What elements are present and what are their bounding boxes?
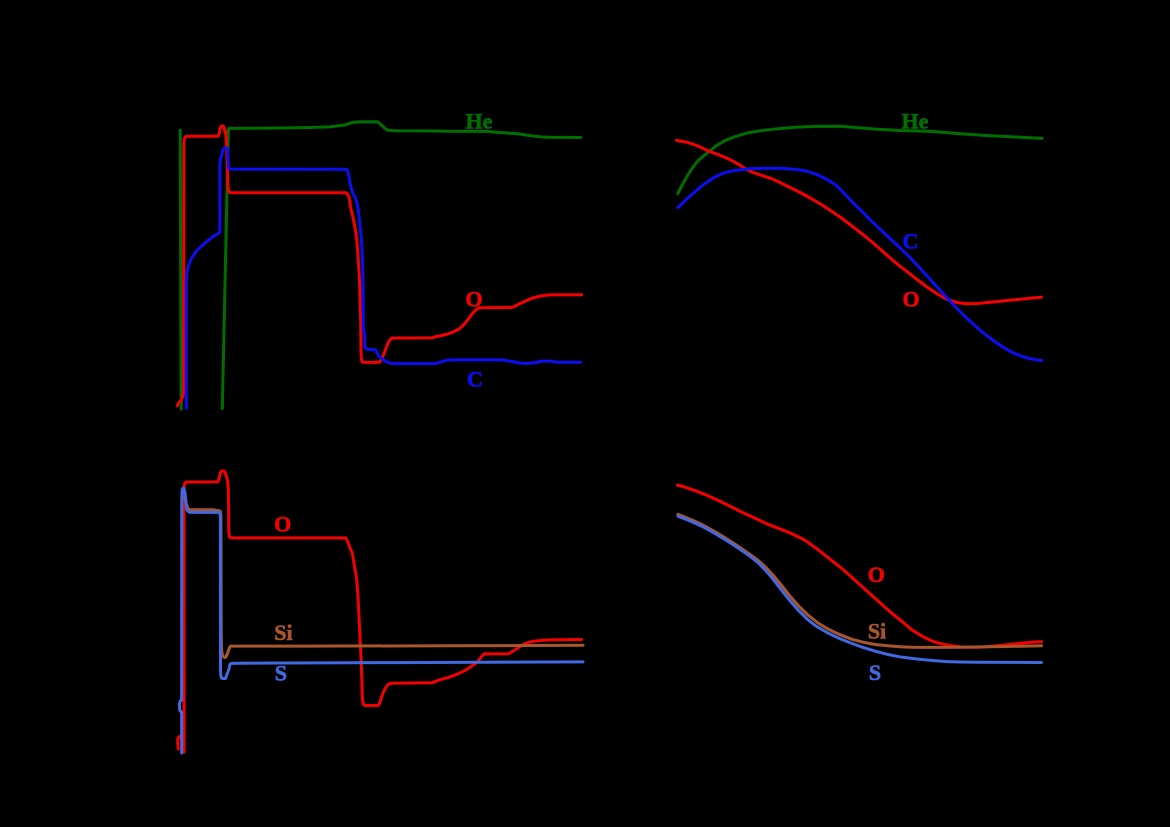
O curve, top-right panel (677, 140, 1042, 303)
svg-text:S: S (869, 660, 881, 685)
Si curve, bottom-left panel (185, 498, 584, 658)
S curve, bottom-right panel (678, 516, 1042, 662)
svg-text:C: C (903, 228, 919, 253)
svg-text:He: He (902, 108, 929, 133)
O curve, top-left panel (177, 126, 581, 406)
He curve, top-left panel: main profile (222, 122, 581, 409)
svg-text:C: C (467, 367, 483, 392)
svg-text:O: O (465, 287, 482, 312)
Si curve, bottom-right panel (678, 514, 1042, 647)
C curve, top-right panel (678, 168, 1042, 360)
He curve, top-left panel: surface segment (180, 130, 181, 409)
O curve, bottom-left panel (178, 471, 582, 752)
svg-text:O: O (868, 562, 885, 587)
svg-text:Si: Si (274, 620, 292, 645)
svg-text:Si: Si (868, 618, 886, 643)
O curve, bottom-right panel (677, 485, 1041, 647)
svg-text:O: O (902, 286, 919, 311)
C curve, top-left panel (186, 148, 580, 408)
svg-text:He: He (465, 109, 492, 134)
svg-text:O: O (274, 511, 291, 536)
svg-text:S: S (275, 661, 287, 686)
S curve, bottom-left panel (180, 488, 584, 753)
He curve, top-right panel (678, 126, 1042, 194)
